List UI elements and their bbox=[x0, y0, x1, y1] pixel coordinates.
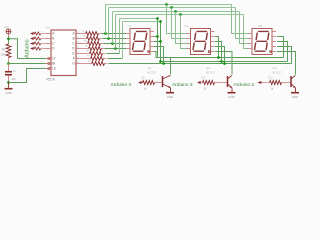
wire D2 common to Q2 bbox=[215, 52, 232, 75]
wire end drop bus2 to D3 pin bbox=[240, 12, 249, 44]
wire drop bus1 to D2 pin bbox=[172, 8, 187, 39]
wire row5 lead to riser bbox=[108, 58, 123, 60]
wire riser row1 to bus bbox=[108, 8, 110, 39]
svg-text:Q3: Q3 bbox=[273, 66, 277, 70]
svg-text:B: B bbox=[52, 37, 54, 41]
resistor R1 vertical bbox=[6, 44, 11, 58]
node bus5 corner dot bbox=[159, 20, 162, 23]
display D1 7-segment bbox=[130, 29, 150, 55]
resistor R5 segment bbox=[81, 48, 89, 50]
wire riser row0 to bus bbox=[105, 5, 107, 34]
wire row1 to display D1 left pin bbox=[103, 38, 127, 40]
wire riser row2 to bus bbox=[112, 12, 114, 44]
svg-text:D2: D2 bbox=[185, 24, 189, 28]
IC output pin C (pin 11) bbox=[76, 43, 81, 45]
wire D1 pin46 hook bbox=[154, 47, 164, 64]
resistor R3 segment bbox=[81, 38, 87, 40]
svg-text:IC2: IC2 bbox=[46, 26, 51, 30]
wire bus line 0 bbox=[106, 4, 232, 6]
wire riser row5 bbox=[122, 22, 124, 59]
resistor R4 segment bbox=[81, 43, 88, 45]
wire row2 to display D1 left pin bbox=[104, 43, 127, 45]
resistor R8 segment bbox=[81, 63, 92, 65]
node bus1 tap for D2 bbox=[170, 6, 173, 9]
IC output pin F (pin 15) bbox=[76, 58, 81, 60]
net arrow input B bbox=[30, 37, 34, 40]
wire bus line 4 bbox=[120, 18, 158, 20]
svg-text:GND: GND bbox=[167, 95, 173, 99]
wire D3 common to Q3 bbox=[277, 52, 296, 75]
wire drop bus3 to D2 pin bbox=[181, 15, 187, 49]
node D2 pin46 bottom dot bbox=[223, 62, 226, 65]
svg-text:GND: GND bbox=[292, 95, 298, 99]
svg-text:+5V: +5V bbox=[4, 26, 9, 30]
svg-text:GND: GND bbox=[228, 95, 234, 99]
net arrow input C bbox=[30, 42, 34, 45]
node D2 pin36 bottom dot bbox=[217, 56, 220, 59]
wire riser row3 to bus bbox=[115, 15, 117, 49]
wire LT net: junction right/down to IC LT pin bbox=[9, 39, 47, 59]
svg-text:BC327: BC327 bbox=[206, 71, 216, 75]
svg-text:R10: R10 bbox=[202, 76, 207, 79]
node +5V junction dot bbox=[7, 37, 10, 40]
wire D1 pin36 drop bbox=[154, 37, 158, 58]
svg-text:E: E bbox=[73, 52, 75, 56]
wire D1 common to Q1 bbox=[154, 52, 171, 75]
svg-text:LE: LE bbox=[52, 67, 56, 71]
resistor R2 segment bbox=[81, 33, 86, 35]
capacitor C1 bbox=[8, 64, 10, 72]
node row2 riser junction bbox=[111, 42, 114, 45]
svg-text:C1: C1 bbox=[13, 69, 17, 73]
node row3 riser junction bbox=[114, 47, 117, 50]
wire row4 lead to riser bbox=[107, 53, 120, 55]
wire bus line 3 bbox=[116, 14, 244, 16]
wire BI net: junction to IC BI pin bbox=[9, 63, 47, 65]
wire D1 pin41 drop bbox=[154, 42, 161, 62]
wire end drop bus1 to D3 pin bbox=[236, 8, 249, 39]
wire end drop bus3 to D3 pin bbox=[244, 15, 249, 49]
node D1 pin41 dot bbox=[159, 40, 162, 43]
IC pin LE (pin 5) bbox=[46, 68, 51, 70]
node row1 riser junction bbox=[107, 37, 110, 40]
svg-text:F: F bbox=[73, 57, 75, 61]
wire bus line 5 bbox=[123, 21, 161, 23]
wire D3 pin36 hook bbox=[277, 37, 284, 58]
node bus3 tap for D2 bbox=[179, 13, 182, 16]
svg-text:GND: GND bbox=[5, 91, 11, 95]
node extra dot y61 bbox=[159, 60, 162, 63]
wire D3 pin41 hook bbox=[277, 42, 288, 62]
+5V supply symbol P1 bbox=[6, 29, 11, 34]
IC pin D (pin 6) bbox=[46, 48, 51, 50]
svg-text:B: B bbox=[73, 37, 75, 41]
svg-text:4511N: 4511N bbox=[46, 77, 56, 81]
svg-text:Arduino 4: Arduino 4 bbox=[111, 82, 132, 88]
svg-text:BC327: BC327 bbox=[148, 71, 158, 75]
net arrow input A bbox=[30, 32, 34, 35]
node D1 pin46 bottom dot bbox=[162, 62, 165, 65]
svg-text:Arduino 2: Arduino 2 bbox=[234, 82, 255, 88]
IC output pin B (pin 12) bbox=[76, 38, 81, 40]
wire bus line 1 bbox=[109, 7, 236, 9]
wire D2 pin46 tap bbox=[215, 47, 225, 64]
wire D2 pin41 tap bbox=[215, 42, 222, 62]
IC output pin E (pin 9) bbox=[76, 53, 81, 55]
IC pin BI (pin 4) bbox=[46, 63, 51, 65]
IC pin A (pin 7) bbox=[46, 33, 51, 35]
wire D2 pin36 tap bbox=[215, 37, 219, 58]
IC output pin G (pin 14) bbox=[76, 63, 81, 65]
IC pin C (pin 2) bbox=[46, 43, 51, 45]
wire D3 pin46 hook bbox=[277, 47, 292, 64]
IC U1 4511 body bbox=[51, 30, 76, 76]
wire drop bus0 to D2 pin bbox=[167, 5, 187, 34]
svg-text:BC327: BC327 bbox=[273, 71, 283, 75]
node R1/C1 junction dot bbox=[7, 62, 10, 65]
IC output pin D (pin 10) bbox=[76, 48, 81, 50]
svg-text:R11: R11 bbox=[269, 76, 274, 79]
node bus2 tap for D2 bbox=[174, 10, 177, 13]
node D2 pin41 bottom dot bbox=[220, 60, 223, 63]
wire LE net: C1 bottom to IC LE pin bbox=[9, 69, 47, 83]
resistor R6 segment bbox=[81, 53, 90, 55]
wire bottom line g-net y61 bbox=[161, 61, 288, 63]
svg-text:Arduino 3: Arduino 3 bbox=[172, 82, 193, 88]
node row0 riser junction bbox=[104, 32, 107, 35]
transistor Q1 group with resistor R9 bbox=[138, 81, 142, 84]
wire bottom line f-net y57 bbox=[158, 57, 284, 59]
node D1 pin36 dot bbox=[156, 35, 159, 38]
node bus4 corner dot bbox=[156, 17, 159, 20]
svg-text:Q2: Q2 bbox=[206, 66, 210, 70]
svg-text:10k: 10k bbox=[1, 53, 6, 57]
IC pin B (pin 1) bbox=[46, 38, 51, 40]
ground GND1 left bbox=[8, 83, 10, 88]
display D2 7-segment bbox=[191, 29, 211, 55]
node bus0 tap for D2 bbox=[165, 3, 168, 6]
svg-text:D1: D1 bbox=[128, 24, 132, 28]
transistor Q3 group with resistor R11 bbox=[258, 81, 262, 84]
display D3 7-segment bbox=[252, 29, 272, 55]
wire drop bus2 to D2 pin bbox=[176, 12, 187, 44]
wire row6 bottom line y64 bbox=[109, 63, 164, 65]
wire end drop bus0 to D3 pin bbox=[232, 5, 249, 34]
svg-text:D3: D3 bbox=[259, 24, 263, 28]
wire row3 to display D1 left pin bbox=[105, 48, 127, 50]
svg-text:LT: LT bbox=[52, 57, 56, 61]
svg-text:10u: 10u bbox=[11, 77, 16, 81]
transistor Q2 group with resistor R10 bbox=[197, 81, 201, 84]
svg-text:Q1: Q1 bbox=[148, 66, 152, 70]
resistor R7 segment bbox=[81, 58, 91, 60]
svg-text:Arduino: Arduino bbox=[24, 39, 30, 58]
wire +5V to junction bbox=[8, 34, 10, 39]
IC pin LT (pin 3) bbox=[46, 58, 51, 60]
IC output pin A (pin 13) bbox=[76, 33, 81, 35]
svg-text:R1: R1 bbox=[2, 48, 6, 52]
wire bus line 2 bbox=[113, 11, 240, 13]
wire row0 to display D1 left pin bbox=[102, 33, 127, 35]
node C1 bottom junction dot bbox=[7, 81, 10, 84]
net arrow input D bbox=[30, 47, 34, 50]
wire riser row4 bbox=[119, 19, 121, 54]
svg-text:BI: BI bbox=[52, 62, 55, 66]
